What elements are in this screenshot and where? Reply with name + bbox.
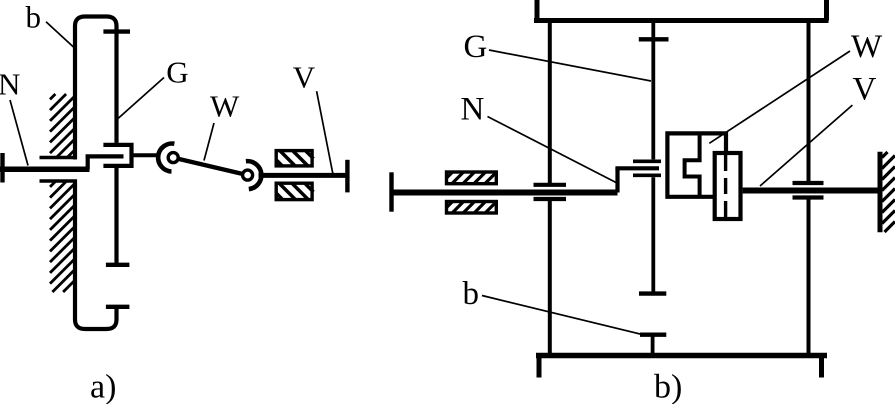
svg-text:b): b) (654, 369, 682, 404)
shaft N step (figure b) (615, 168, 619, 192)
coupling W sliding sleeve (715, 153, 741, 219)
housing drum b (figure a) lower outline (75, 180, 117, 330)
clutch output stub to joint (132, 153, 161, 157)
housing drum b (figure a) upper outline (75, 17, 117, 160)
wall bearing seat upper edge (figure a) (40, 156, 78, 160)
right wall bearing plates (793, 181, 824, 185)
dog clutch on gear shaft G (figure a) (103, 145, 131, 166)
output shaft V (figure a) (259, 173, 348, 178)
gear G top tooth tick (639, 37, 669, 41)
svg-text:a): a) (90, 369, 116, 404)
fixed wall right (figure b) (880, 152, 895, 233)
svg-text:N: N (461, 92, 485, 128)
leader V (317, 91, 333, 174)
svg-text:G: G (464, 29, 488, 65)
drum tooth b (figure b) (640, 333, 666, 337)
clutch plates on G (figure b) (633, 159, 661, 163)
gear shaft G vertical (figure b) (651, 21, 655, 160)
leader W (204, 123, 214, 161)
wall hatching upper (figure a) (50, 94, 75, 157)
leader b (figure b) (482, 296, 640, 335)
svg-text:V: V (293, 60, 316, 95)
svg-text:W: W (851, 29, 883, 65)
gear shaft G vertical (figure a) (114, 168, 118, 265)
bearing N upper block (figure b) (447, 172, 497, 184)
bearing V lower block (276, 183, 313, 200)
drum left wall (figure b) (548, 21, 552, 184)
coupling W outer box (figure b) (667, 133, 726, 196)
leader b (46, 22, 74, 48)
input shaft N end cap (figure b) (389, 172, 393, 211)
cardan link W (173, 158, 247, 176)
drum internal gear tooth bottom (106, 305, 129, 309)
svg-text:V: V (853, 71, 877, 107)
wall bearing seat lower edge (figure a) (40, 179, 78, 183)
universal joint 1 fork arc (158, 144, 174, 172)
svg-text:W: W (210, 88, 240, 123)
leader W (figure b) (709, 51, 850, 143)
bearing N lower block (figure b) (447, 202, 497, 214)
svg-text:b: b (26, 0, 42, 34)
bearing V upper block (276, 151, 313, 167)
gear shaft G end cap (106, 263, 129, 267)
coupling W hidden edge dashed (724, 155, 727, 217)
frame bottom left post (537, 356, 542, 378)
frame top bar (figure b) (534, 18, 829, 23)
coupling W jaw divider (685, 133, 700, 196)
gear shaft G end cap (figure b) (639, 291, 666, 295)
leader G (figure b) (489, 50, 651, 81)
universal joint 1 pivot ring (168, 153, 178, 163)
output shaft V (figure b) (743, 188, 878, 194)
leader N (figure b) (488, 117, 618, 184)
frame top left post (535, 0, 540, 21)
leader N (10, 100, 28, 166)
svg-text:N: N (0, 66, 20, 101)
svg-text:G: G (166, 55, 188, 90)
drum internal gear tooth top (103, 29, 130, 33)
input shaft N (0, 167, 90, 173)
leader G (118, 78, 164, 119)
left wall bearing plates (534, 183, 567, 187)
svg-text:b: b (463, 276, 480, 312)
input shaft N (figure b) (390, 190, 618, 196)
input shaft N end cap (0, 153, 4, 183)
universal joint 2 fork arc (246, 161, 261, 189)
shaft N clutch segment (figure b) (615, 166, 659, 170)
shaft N clutch segment (86, 154, 124, 158)
frame top right post (824, 0, 829, 21)
universal joint 2 pivot ring (243, 170, 253, 180)
frame bottom right post (819, 356, 824, 378)
shaft N step (86, 155, 90, 170)
leader V (figure b) (760, 105, 852, 186)
wall hatching lower (figure a) (50, 182, 75, 293)
shaft V end cap (345, 160, 349, 193)
frame bottom bar (figure b) (536, 353, 827, 359)
drum right wall (figure b) (807, 21, 811, 182)
